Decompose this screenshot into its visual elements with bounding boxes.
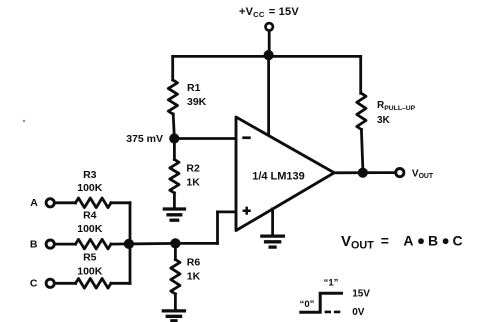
wire R6 junction to riser — [175, 242, 217, 245]
node output junction — [358, 168, 368, 178]
wire into non-inverting input — [218, 210, 236, 213]
wire V+ supply into comparator — [267, 55, 270, 135]
svg-text:100K: 100K — [77, 265, 103, 277]
svg-text:=: = — [381, 232, 389, 248]
wire R6 bottom to ground — [174, 294, 177, 310]
svg-text:100K: 100K — [77, 182, 103, 194]
wire comparator output to Vout terminal — [334, 171, 395, 174]
svg-text:R2: R2 — [186, 163, 200, 175]
wire comparator ground pin stem — [271, 209, 274, 235]
terminal input A — [46, 199, 54, 207]
svg-text:15V: 15V — [352, 288, 370, 299]
wire Vcc terminal stem — [268, 31, 271, 51]
svg-text:B: B — [30, 239, 38, 251]
wire R4 to bus junction — [111, 242, 129, 245]
scan speck artifact — [23, 120, 25, 122]
svg-text:VOUT: VOUT — [341, 233, 374, 252]
wire input C to R5 — [55, 282, 76, 285]
wire R2 bottom to ground — [173, 193, 176, 208]
wire right drop to pull-up resistor — [359, 56, 362, 93]
svg-text:“0”: “0” — [300, 299, 315, 310]
svg-text:39K: 39K — [187, 96, 207, 108]
svg-text:1/4 LM139: 1/4 LM139 — [252, 170, 305, 182]
resistor R1 39K — [168, 80, 177, 114]
wire pull-up resistor bottom to output node — [361, 130, 362, 168]
wire summing bus vertical (A to C) — [129, 203, 132, 283]
svg-text:RPULL–UP: RPULL–UP — [377, 100, 416, 112]
wire R6 top stem — [174, 243, 177, 259]
resistor R5 100K — [76, 279, 112, 289]
svg-text:B: B — [428, 232, 438, 248]
wire input A to R3 — [55, 201, 76, 204]
svg-text:C: C — [30, 278, 38, 290]
svg-text:A: A — [30, 197, 38, 209]
svg-text:R1: R1 — [187, 82, 201, 94]
terminal Vout — [396, 169, 404, 177]
node R6 junction — [170, 238, 180, 248]
resistor R4 100K — [76, 239, 112, 249]
svg-text:1K: 1K — [187, 271, 201, 283]
wire riser to non-inverting input — [216, 212, 219, 244]
resistor R3 100K — [76, 198, 112, 208]
svg-text:“1”: “1” — [324, 278, 339, 289]
resistor R2 1K — [170, 160, 179, 194]
svg-text:375 mV: 375 mV — [126, 133, 163, 145]
svg-text:A: A — [403, 232, 413, 248]
resistor Rpull-up 3K — [357, 93, 366, 129]
svg-text:+VCC = 15V: +VCC = 15V — [239, 6, 299, 19]
svg-text:1K: 1K — [186, 177, 200, 189]
ground comparator negative supply pin — [260, 236, 285, 247]
ground below R2 — [163, 209, 186, 220]
svg-text:0V: 0V — [352, 307, 365, 318]
svg-text:R3: R3 — [83, 169, 97, 181]
wire top supply rail — [173, 55, 361, 58]
svg-text:R6: R6 — [187, 257, 201, 269]
ground below R6 — [162, 311, 186, 321]
svg-text:C: C — [453, 232, 463, 248]
node summing bus junction B — [124, 239, 134, 249]
svg-text:3K: 3K — [377, 115, 391, 126]
wire R3 to summing bus — [111, 201, 130, 204]
wire input B to R4 — [55, 243, 76, 246]
node Vcc junction — [264, 50, 274, 60]
terminal input B — [46, 240, 54, 248]
node 375 mV reference junction — [169, 133, 179, 143]
svg-text:100K: 100K — [77, 223, 103, 235]
terminal input C — [46, 279, 54, 287]
op-amp U1 1/4 LM139 comparator triangle — [236, 117, 334, 231]
non-inverting input plus sign — [243, 207, 251, 215]
svg-text:VOUT: VOUT — [412, 168, 434, 180]
wire R5 to summing bus — [111, 282, 130, 285]
inverting input minus sign — [242, 136, 250, 139]
wire bus junction to R6 junction — [129, 242, 176, 245]
wire R1 top stem — [171, 56, 174, 80]
waveform logic levels legend — [299, 293, 343, 312]
wire inverting input (375 mV node to comparator) — [174, 137, 235, 140]
resistor R6 1K — [171, 260, 180, 295]
svg-text:R5: R5 — [83, 252, 97, 264]
wire node to R2 top — [173, 139, 176, 160]
svg-text:R4: R4 — [83, 210, 97, 222]
wire R1 bottom to node — [173, 114, 174, 135]
terminal Vcc — [266, 23, 273, 30]
